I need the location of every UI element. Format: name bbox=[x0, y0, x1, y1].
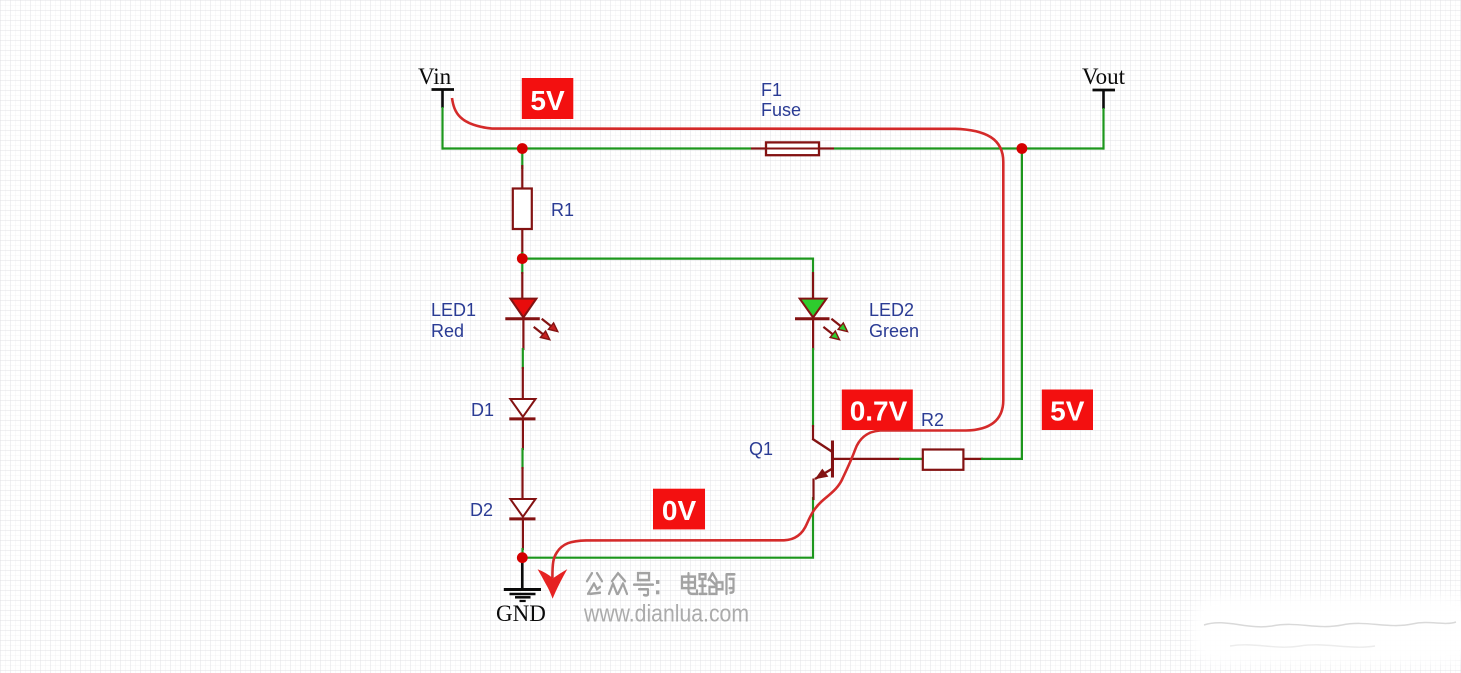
wire Vin drop bbox=[441, 107, 443, 150]
svg-text:www.dianlua.com: www.dianlua.com bbox=[583, 601, 749, 628]
svg-text:Q1: Q1 bbox=[749, 439, 773, 459]
LED LED1 bbox=[505, 259, 558, 399]
wire Vout drop bbox=[1102, 108, 1104, 150]
svg-text:R2: R2 bbox=[921, 410, 944, 430]
svg-text:LED1: LED1 bbox=[431, 300, 476, 320]
svg-text:5V: 5V bbox=[530, 85, 565, 116]
diode D2 bbox=[509, 499, 535, 558]
junction node A bbox=[517, 143, 528, 154]
node Vout terminal bbox=[1082, 64, 1126, 109]
svg-text:D2: D2 bbox=[470, 500, 493, 520]
value box 5V right bbox=[1042, 390, 1093, 431]
ground bbox=[496, 558, 546, 626]
junction node B bbox=[1017, 143, 1028, 154]
wire top rail left bbox=[442, 147, 752, 149]
value box 5V at Vin bbox=[522, 78, 574, 119]
wire base to R2 bbox=[899, 458, 924, 460]
svg-text:D1: D1 bbox=[471, 400, 494, 420]
svg-text:R1: R1 bbox=[551, 200, 574, 220]
watermark cjk bbox=[587, 573, 735, 595]
svg-text:Red: Red bbox=[431, 321, 464, 341]
svg-text:5V: 5V bbox=[1050, 396, 1085, 427]
wire mid rail bbox=[521, 259, 813, 299]
eraser blob bottom right bbox=[1192, 596, 1461, 664]
svg-text:Green: Green bbox=[869, 321, 919, 341]
junction node D bbox=[517, 552, 528, 563]
resistor R2 bbox=[923, 450, 983, 470]
diode D1 bbox=[509, 399, 535, 499]
svg-text:Vin: Vin bbox=[418, 64, 452, 89]
wire red annotation current path bbox=[452, 98, 1003, 578]
wire R2 to right rail bbox=[981, 149, 1022, 459]
resistor R1 bbox=[513, 149, 532, 259]
value box 0V bbox=[653, 489, 705, 530]
transistor Q1 bbox=[812, 425, 901, 500]
svg-text:GND: GND bbox=[496, 601, 546, 626]
svg-text:F1: F1 bbox=[761, 80, 782, 100]
wire bottom rail bbox=[521, 497, 813, 558]
fuse F1 bbox=[751, 142, 834, 155]
svg-text:LED2: LED2 bbox=[869, 300, 914, 320]
svg-text:Vout: Vout bbox=[1082, 64, 1126, 89]
wire top rail right bbox=[834, 147, 1105, 149]
svg-text:0V: 0V bbox=[662, 495, 697, 526]
svg-text:Fuse: Fuse bbox=[761, 100, 801, 120]
node Vin terminal bbox=[418, 64, 454, 108]
arrowhead annotation to GND bbox=[538, 569, 568, 599]
wire LED2 to Q1 collector bbox=[812, 348, 814, 427]
LED LED2 bbox=[795, 272, 848, 350]
junction node C bbox=[517, 253, 528, 264]
svg-text:0.7V: 0.7V bbox=[850, 396, 908, 427]
value box 0.7V bbox=[842, 390, 913, 431]
